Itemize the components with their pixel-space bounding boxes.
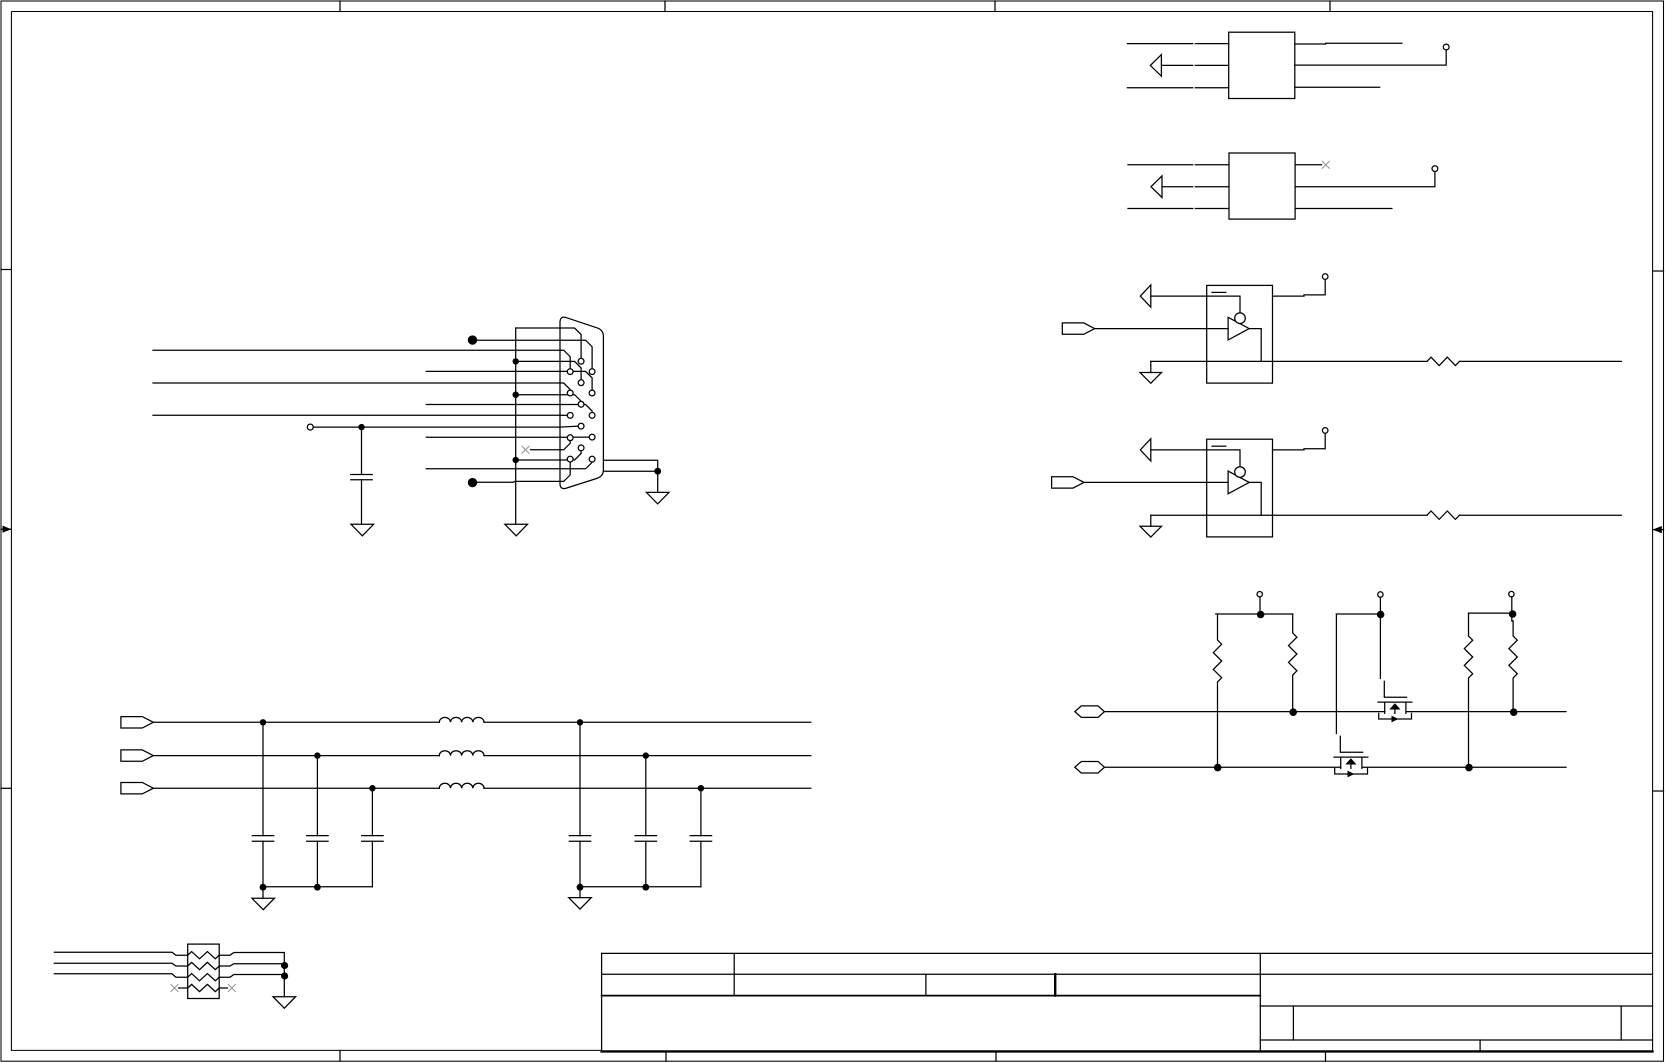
short stub wire d bbox=[426, 468, 560, 470]
wire filter line 1 right of inductor bbox=[484, 721, 811, 723]
resistor R pullup1b (to line1) bbox=[1288, 614, 1296, 712]
wire RN1 input 3 bbox=[54, 974, 187, 977]
wire T2 pin mid-left bbox=[1162, 186, 1229, 188]
connector trace pin 3 bbox=[560, 350, 570, 369]
wire RN1 input 1 bbox=[54, 952, 187, 955]
connector pin circle M2 bbox=[578, 380, 584, 386]
wire RN1 output 2 bbox=[219, 964, 284, 966]
connector pin circle M5 bbox=[578, 445, 584, 451]
junction dot right bus 1 bbox=[577, 884, 584, 891]
port flag filter input 1 bbox=[121, 717, 153, 728]
title block right row line bbox=[1260, 1005, 1652, 1007]
wire T1 bottom-right bbox=[1295, 86, 1380, 88]
wire T1 pin top-left bbox=[1127, 43, 1228, 45]
connector trace pin 15 bbox=[560, 462, 570, 481]
RN1 pin 4 left stub with no-connect bbox=[179, 987, 188, 989]
driver U2 box bbox=[1207, 439, 1273, 537]
connector pin circle R2 bbox=[589, 390, 595, 396]
junction dot R1a line2 bbox=[1214, 764, 1222, 772]
title block right inner divider a bbox=[1292, 1006, 1294, 1040]
connector trace pin 6 bbox=[560, 383, 570, 390]
port arrow enable bbox=[1140, 439, 1151, 461]
inductor L2 bbox=[439, 751, 484, 756]
inductor L1 bbox=[439, 717, 484, 722]
wire T1 top-right bbox=[1295, 42, 1402, 45]
capacitor C6 (right group) bbox=[700, 788, 702, 887]
connector pin circle R3 bbox=[589, 413, 595, 419]
title block divider c (thick) bbox=[1054, 974, 1056, 995]
power terminal circle group3 bbox=[1509, 591, 1514, 596]
border zone tick right 2 bbox=[1653, 790, 1664, 792]
connector pin circle L1 bbox=[567, 369, 573, 375]
junction dot capacitor tap bbox=[358, 424, 364, 430]
junction dot group2 bbox=[1377, 611, 1385, 619]
border zone tick top 4 bbox=[1329, 1, 1331, 12]
wire T1 pin mid-left bbox=[1161, 64, 1228, 66]
ground stem bbox=[1150, 361, 1152, 372]
title block outline top bbox=[602, 952, 1653, 954]
wire T2 mid-right to power stub bbox=[1295, 172, 1435, 187]
border zone tick bottom 1 bbox=[339, 1050, 341, 1061]
driver U1 box bbox=[1207, 285, 1273, 383]
power terminal circle group1 bbox=[1257, 592, 1262, 597]
junction dot left bus 1 bbox=[260, 884, 267, 891]
capacitor C4 (right group) bbox=[579, 722, 581, 887]
wire line2 left segment bbox=[1105, 766, 1341, 768]
connector pin circle M1 bbox=[578, 358, 584, 364]
junction dot bus 2 bbox=[513, 392, 519, 398]
wire enable from arrow to bubble bbox=[1151, 450, 1240, 467]
junction dot left bus 2 bbox=[314, 884, 321, 891]
pullup group 1 top bar bbox=[1216, 613, 1293, 615]
capacitor C1 (left group) bbox=[262, 722, 264, 887]
wire T2 bottom-right bbox=[1295, 208, 1392, 210]
pullup group 3 top bar bbox=[1469, 612, 1512, 614]
resistor R pullup3b (to line1) bbox=[1509, 621, 1517, 712]
title block right inner row bottom bbox=[1260, 1039, 1652, 1041]
junction dot R1b line1 bbox=[1289, 708, 1297, 716]
long wire signal 2 bbox=[153, 382, 560, 384]
connector trace pin 2 bbox=[560, 340, 592, 369]
connector trace pin 13 bbox=[560, 451, 581, 460]
wire T2 pin top-left bbox=[1128, 164, 1229, 166]
connector trace pin 11 bbox=[560, 436, 589, 438]
border zone tick top 1 bbox=[339, 1, 341, 12]
left group ground symbol bbox=[252, 898, 275, 910]
junction dot bus 3 bbox=[513, 457, 519, 463]
junction dot left cap line 1 bbox=[260, 719, 266, 725]
border zone tick top 2 bbox=[664, 1, 666, 12]
connector pin circle M4 bbox=[578, 423, 584, 429]
transistor Q1 (upper pass FET) bbox=[1384, 681, 1406, 697]
port flag filter input 2 bbox=[121, 750, 153, 761]
ground symbol bbox=[1140, 526, 1162, 537]
input wire from flag bbox=[1095, 328, 1228, 330]
left cap group bottom bus bbox=[263, 886, 372, 888]
title block divider b bbox=[925, 974, 927, 995]
shield big dot 1 bbox=[468, 335, 477, 344]
junction dot bus 1 bbox=[513, 358, 519, 364]
port flag bidirectional net2 bbox=[1075, 762, 1105, 774]
capacitor C2 (left group) bbox=[316, 756, 318, 887]
junction dot shield bbox=[654, 468, 661, 475]
open terminal circle bbox=[307, 424, 313, 430]
connector pin circle L2 bbox=[567, 390, 573, 396]
wire bus dot1 to connector bbox=[516, 360, 560, 362]
wire filter line 1 left of inductor bbox=[153, 721, 439, 723]
power stub group1 bbox=[1259, 597, 1261, 614]
right group ground stem bbox=[579, 887, 581, 898]
junction dot right bus 2 bbox=[642, 884, 649, 891]
bus top wire to connector bbox=[516, 327, 560, 329]
wire big dot1 to connector bbox=[476, 339, 560, 341]
long wire signal 1 bbox=[153, 349, 560, 351]
resistor RN1 element 1 bbox=[188, 952, 220, 959]
connector shield wire upper bbox=[603, 460, 657, 471]
connector trace pin 9 bbox=[560, 414, 567, 416]
driver U2 enable overline bbox=[1212, 445, 1226, 447]
junction dot left cap line 2 bbox=[314, 752, 320, 758]
signal bus vertical wire bbox=[515, 328, 517, 524]
wire bus dot3 to connector bbox=[516, 459, 560, 461]
short stub wire c bbox=[426, 436, 560, 438]
title block left edge bbox=[601, 953, 603, 1051]
output wire to series resistor bbox=[1261, 514, 1427, 516]
power terminal circle group2 bbox=[1378, 592, 1383, 597]
input wire from flag bbox=[1085, 481, 1229, 483]
wire terminal to connector bbox=[313, 426, 560, 428]
capacitor C7 ground bbox=[351, 524, 374, 536]
border zone tick bottom 4 bbox=[1325, 1052, 1327, 1061]
gnd wire and output wire bbox=[1151, 329, 1261, 362]
border center arrow left bbox=[1, 528, 11, 530]
title block section divider bbox=[1259, 953, 1261, 1051]
wire group2 to Q2 gate bbox=[1335, 614, 1337, 734]
resistor R pullup3a (to line2) bbox=[1464, 613, 1472, 767]
left group ground stem bbox=[262, 887, 264, 898]
output wire to edge bbox=[1460, 514, 1622, 516]
resistor RN1 element 3 bbox=[188, 974, 220, 981]
wire filter line 3 right of inductor bbox=[484, 787, 811, 789]
port arrow enable bbox=[1140, 285, 1151, 307]
gnd wire and output wire bbox=[1151, 482, 1261, 515]
resistor R pullup1a (to line2) bbox=[1213, 614, 1221, 767]
connector trace pin 12 bbox=[560, 441, 570, 450]
wire big dot2 to connector bbox=[476, 480, 560, 483]
output wire to series resistor bbox=[1261, 360, 1427, 362]
wire line2 right segment bbox=[1362, 766, 1566, 768]
port arrow T2 output left bbox=[1151, 176, 1162, 198]
driver triangle bbox=[1228, 317, 1249, 340]
capacitor C3 (left group) bbox=[371, 788, 373, 887]
input port flag bbox=[1052, 477, 1084, 488]
shield big dot 2 bbox=[468, 478, 477, 487]
connector pin circle R1 bbox=[589, 369, 595, 375]
connector trace pin 5 bbox=[560, 371, 592, 390]
right group ground symbol bbox=[569, 898, 592, 910]
wire RN1 input 2 bbox=[54, 963, 187, 966]
inversion bubble bbox=[1235, 467, 1246, 478]
junction dot R3b line1 bbox=[1510, 708, 1518, 716]
power stub group2 bbox=[1379, 597, 1381, 614]
wire T2 top-right with no-connect bbox=[1295, 164, 1321, 166]
connector trace pin 1 bbox=[560, 328, 581, 358]
long wire signal 3 bbox=[153, 414, 560, 416]
driver U1 enable overline bbox=[1212, 291, 1226, 293]
resistor RN1 element 2 bbox=[188, 962, 220, 969]
junction dot left cap line 3 bbox=[369, 785, 375, 791]
border zone tick left 2 bbox=[1, 787, 11, 789]
wire RN1 output 1 bbox=[219, 953, 284, 997]
connector trace pin 14 bbox=[560, 462, 592, 469]
wire filter line 3 left of inductor bbox=[153, 787, 439, 789]
connector pin circle L5 bbox=[567, 456, 573, 462]
output wire to edge bbox=[1460, 360, 1622, 362]
transistor Q2 (lower pass FET) bbox=[1340, 736, 1362, 752]
connector trace pin 10 bbox=[560, 426, 578, 427]
wire driver VCC to circle bbox=[1273, 433, 1326, 450]
connector pin circle M3 bbox=[578, 401, 584, 407]
short stub wire a bbox=[426, 370, 560, 372]
wire line1 right segment bbox=[1406, 711, 1566, 713]
junction dot right cap line 3 bbox=[698, 785, 704, 791]
junction dot RN1 out2 bbox=[281, 962, 288, 969]
junction dot right cap line 1 bbox=[577, 719, 583, 725]
wire filter line 2 right of inductor bbox=[484, 755, 811, 757]
connector trace pin 8 bbox=[560, 405, 592, 413]
title block right inner divider b bbox=[1620, 1006, 1622, 1040]
port arrow T1 output left bbox=[1150, 55, 1161, 77]
title block row line 1 bbox=[602, 973, 1653, 975]
driver triangle bbox=[1228, 471, 1249, 494]
title block row line 2 (left section) bbox=[602, 995, 1261, 997]
capacitor C7 bbox=[361, 427, 363, 524]
power terminal circle P2 bbox=[1432, 166, 1438, 172]
transformer/isolator T1 box bbox=[1229, 32, 1295, 98]
connector pin circle R4 bbox=[589, 434, 595, 440]
no-connect stub wire bbox=[531, 449, 561, 451]
wire enable from arrow to bubble bbox=[1151, 296, 1240, 313]
border zone tick left 1 bbox=[1, 269, 11, 271]
connector pin circle R5 bbox=[589, 456, 595, 462]
bus ground symbol bbox=[505, 524, 528, 536]
ground symbol bbox=[1140, 373, 1162, 384]
wire driver VCC to circle bbox=[1273, 279, 1326, 296]
border zone tick bottom 3 bbox=[995, 1052, 997, 1061]
transformer/isolator T2 box bbox=[1229, 153, 1295, 219]
shield ground stem bbox=[657, 471, 659, 492]
power terminal circle P1 bbox=[1443, 44, 1449, 50]
power terminal circle bbox=[1322, 274, 1328, 280]
port flag filter input 3 bbox=[121, 783, 153, 794]
inversion bubble bbox=[1235, 313, 1246, 324]
input port flag bbox=[1062, 323, 1094, 334]
power terminal circle bbox=[1322, 428, 1328, 434]
title block divider a bbox=[733, 953, 735, 995]
wire RN1 output 3 bbox=[219, 975, 284, 978]
ground stem bbox=[1150, 515, 1152, 526]
inductor L3 bbox=[439, 783, 484, 788]
wire bus dot2 to connector bbox=[516, 394, 560, 396]
junction dot right cap line 2 bbox=[643, 752, 649, 758]
port flag bidirectional net1 bbox=[1075, 706, 1105, 718]
junction dot group3 bbox=[1509, 610, 1517, 618]
no-connect mark x bbox=[522, 446, 529, 453]
connector trace pin 7 bbox=[560, 395, 581, 402]
wire group2 to Q1 gate bbox=[1379, 614, 1381, 679]
series resistor R bbox=[1427, 357, 1459, 365]
title block bottom thick line bbox=[602, 1050, 1653, 1052]
resistor RN1 element 4 bbox=[188, 984, 220, 991]
border center arrow right bbox=[1653, 529, 1664, 531]
border zone tick top 3 bbox=[994, 1, 996, 12]
border zone tick bottom 2 bbox=[665, 1052, 667, 1061]
RN1 ground symbol bbox=[273, 997, 296, 1009]
gate-drive group 2 top bar bbox=[1336, 613, 1380, 615]
RN1 pin 8 right stub with no-connect bbox=[219, 987, 227, 989]
power stub group3 bbox=[1511, 597, 1513, 614]
connector pin circle L3 bbox=[567, 413, 573, 419]
border zone tick right 1 bbox=[1653, 270, 1664, 272]
series resistor R bbox=[1427, 511, 1459, 519]
short stub wire b bbox=[426, 404, 560, 406]
junction dot R3a line2 bbox=[1465, 764, 1473, 772]
connector shield wire lower bbox=[603, 470, 657, 472]
connector pin circle L4 bbox=[567, 435, 573, 441]
connector J1 shell bbox=[560, 317, 603, 488]
wire line1 left segment bbox=[1105, 711, 1385, 713]
capacitor C5 (right group) bbox=[645, 756, 647, 887]
junction dot RN1 out3 bbox=[281, 972, 288, 979]
title block right bottom divider bbox=[1479, 1040, 1481, 1052]
junction dot group1 bbox=[1257, 611, 1265, 619]
wire filter line 2 left of inductor bbox=[153, 755, 439, 757]
shield ground symbol bbox=[646, 492, 669, 504]
wire T1 mid-right to power stub bbox=[1295, 50, 1446, 65]
right cap group bottom bus bbox=[580, 886, 701, 888]
wire T1 pin bottom-left bbox=[1127, 87, 1228, 89]
connector trace pin 4 bbox=[560, 361, 581, 379]
resistor network RN1 box bbox=[188, 944, 220, 998]
wire T2 pin bottom-left bbox=[1128, 208, 1229, 210]
